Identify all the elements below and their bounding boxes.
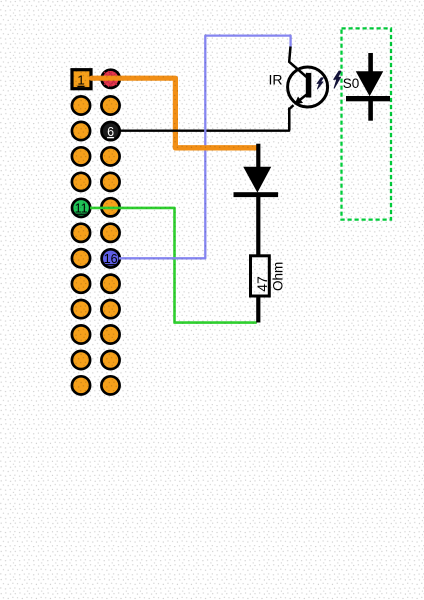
sensor S0 enclosure (dashed) (342, 28, 392, 219)
sensor S0 light symbol (334, 71, 341, 88)
sensor S0 diode cathode bar (346, 96, 390, 101)
LED D1 cathode bar (234, 192, 279, 197)
LED D1 anode lead (256, 144, 260, 169)
sensor S0 diode triangle (357, 72, 383, 95)
pin 16 (blue, GPIO23) (102, 249, 120, 267)
pin 2 (red, 5V) (102, 70, 120, 88)
phototransistor Q1 emitter lead (289, 95, 306, 130)
wire W4 (blue, pin16 to phototransistor collector) (119, 36, 291, 259)
phototransistor Q1 emitter arrow (294, 97, 303, 105)
phototransistor Q1 body circle (288, 67, 328, 107)
pin 1 (square pad, 3V3) (72, 70, 91, 89)
LED D1 triangle (244, 167, 270, 191)
LED D1 cathode lead (256, 197, 260, 256)
wire W1 (orange, pin1 to LED anode) (92, 78, 257, 148)
sensor S0 diode bottom lead (368, 101, 373, 121)
pin 11 (green, GPIO17) (72, 199, 90, 217)
wire W3 (green, pin11 to resistor bottom) (90, 208, 257, 323)
phototransistor Q1 light symbol (317, 78, 323, 89)
resistor R1 bottom lead (256, 298, 260, 323)
pin 6 (black, GND) (102, 122, 120, 140)
phototransistor Q1 collector lead (289, 47, 306, 78)
wire W1 segment repaint (orange over blue crossing) (175, 145, 256, 148)
GPIO header J1 (plain pins) (72, 96, 120, 394)
phototransistor Q1 base bar (306, 73, 312, 98)
wire W2 (black, pin6 to phototransistor emitter) (119, 108, 289, 131)
sensor S0 diode top lead (368, 53, 373, 73)
resistor R1 body (251, 256, 270, 296)
